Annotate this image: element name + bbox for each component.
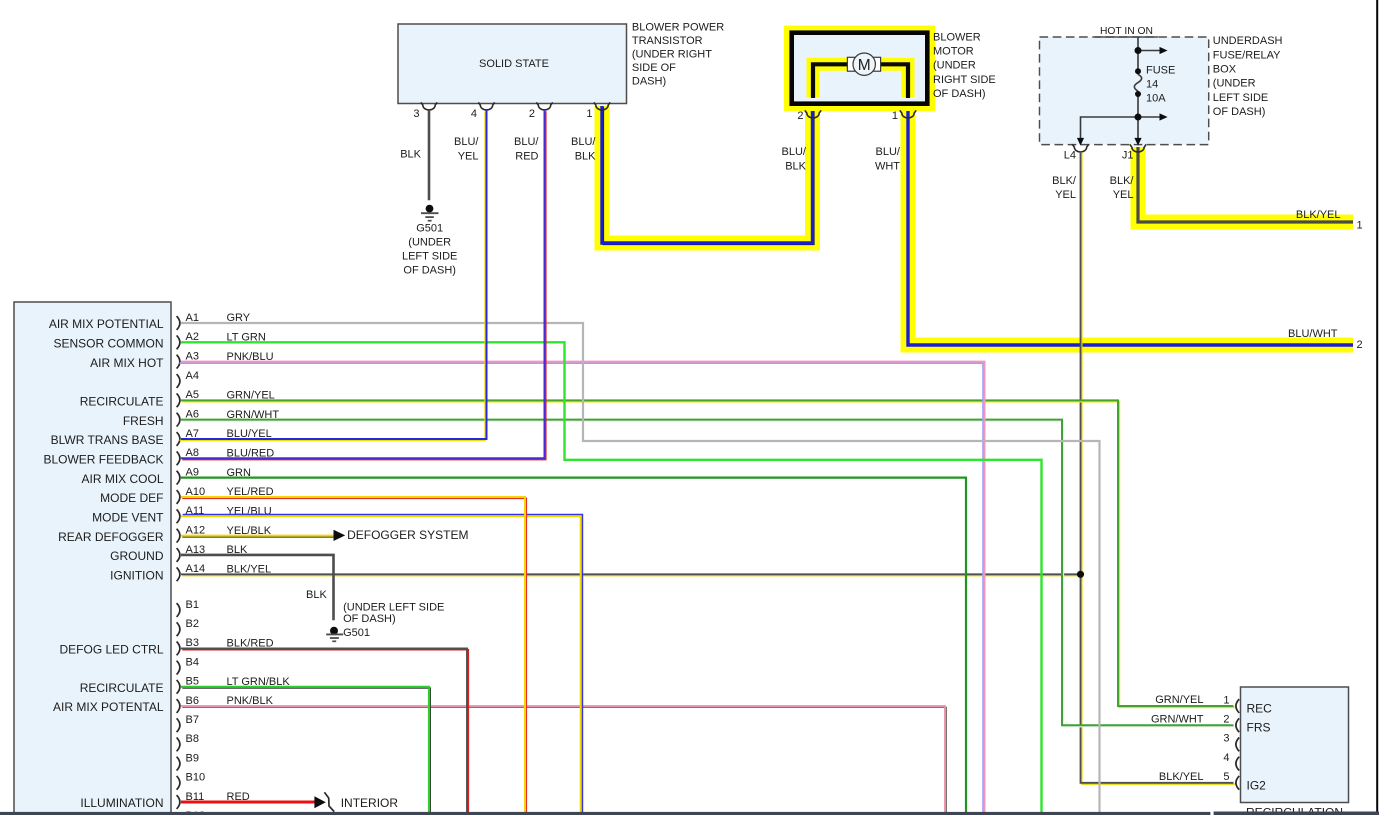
pin A4	[177, 370, 199, 388]
wire B5 LT GRN/BLK	[181, 687, 430, 815]
pin A9	[177, 466, 251, 484]
svg-text:A14: A14	[186, 563, 206, 575]
ground G501 caption (solid state)	[402, 222, 457, 276]
svg-text:GROUND: GROUND	[110, 549, 164, 563]
pin B3	[177, 637, 274, 655]
svg-text:(UNDER RIGHT: (UNDER RIGHT	[632, 49, 712, 61]
HOT IN ON underline	[1095, 36, 1158, 38]
svg-text:L4: L4	[1064, 149, 1076, 161]
wire A9 GRN	[181, 478, 966, 815]
svg-text:OF DASH): OF DASH)	[343, 613, 396, 625]
pin A6	[177, 408, 280, 426]
svg-text:YEL: YEL	[1113, 189, 1134, 201]
wire A10 YEL/RED	[181, 497, 526, 815]
svg-text:G501: G501	[343, 627, 370, 639]
arrow to DEFOGGER SYSTEM	[334, 528, 469, 542]
svg-text:BLK/: BLK/	[1110, 175, 1135, 187]
svg-text:ILLUMINATION: ILLUMINATION	[80, 796, 163, 810]
svg-text:1: 1	[1223, 694, 1229, 706]
wire A2 LT GRN	[181, 342, 1042, 815]
svg-text:AIR MIX POTENTAL: AIR MIX POTENTAL	[53, 700, 164, 714]
pin B2	[177, 618, 199, 636]
svg-text:BLK: BLK	[306, 589, 327, 601]
pin B6	[177, 695, 274, 713]
pin A10	[177, 486, 274, 504]
svg-text:BLU/: BLU/	[782, 146, 807, 158]
solid state pin 3 cup	[421, 102, 437, 110]
svg-text:5: 5	[1223, 771, 1229, 783]
svg-text:FUSE: FUSE	[1146, 65, 1175, 77]
svg-text:DEFOG LED CTRL: DEFOG LED CTRL	[59, 643, 163, 657]
svg-text:MODE VENT: MODE VENT	[92, 511, 164, 525]
svg-text:IGNITION: IGNITION	[110, 568, 163, 582]
svg-text:IG2: IG2	[1247, 778, 1267, 792]
svg-text:BLU/WHT: BLU/WHT	[1288, 328, 1338, 340]
solid state pin 2 cup	[536, 102, 552, 110]
svg-text:YEL: YEL	[1055, 189, 1076, 201]
svg-text:OF DASH): OF DASH)	[933, 88, 986, 100]
pin A12	[177, 524, 272, 542]
svg-text:B1: B1	[186, 599, 199, 611]
blower power transistor box U1 SOLID STATE	[398, 24, 627, 104]
svg-text:DEFOGGER SYSTEM: DEFOGGER SYSTEM	[347, 528, 468, 542]
solid state pin wire labels	[400, 136, 596, 162]
arrow to INTERIOR LIGHTS	[314, 792, 398, 815]
svg-text:SENSOR COMMON: SENSOR COMMON	[53, 337, 163, 351]
svg-text:M: M	[858, 57, 871, 74]
svg-text:AIR MIX COOL: AIR MIX COOL	[81, 472, 163, 486]
svg-text:2: 2	[1223, 714, 1229, 726]
recirculation control unit box	[1241, 687, 1349, 803]
solid state caption	[632, 21, 724, 87]
svg-text:BLOWER POWER: BLOWER POWER	[632, 21, 724, 33]
svg-text:2: 2	[1357, 339, 1363, 351]
pin A1	[177, 312, 251, 330]
svg-text:WHT: WHT	[875, 161, 900, 173]
svg-text:RED: RED	[515, 150, 538, 162]
fuse box arrow right lower	[1160, 113, 1168, 120]
fuse box pin J1 cup	[1130, 144, 1146, 152]
svg-text:BLOWER FEEDBACK: BLOWER FEEDBACK	[43, 453, 163, 467]
pin B8	[177, 733, 199, 751]
svg-text:BLU/: BLU/	[514, 136, 539, 148]
junction A14/L4 BLK/YEL	[1077, 571, 1084, 578]
fuse box caption	[1213, 35, 1283, 118]
blower motor inner circuit wire (highlighted)	[813, 64, 908, 98]
wire solid state pin3 BLK	[428, 110, 431, 200]
pin A8	[177, 447, 275, 465]
wire A5 GRN/YEL	[181, 400, 1235, 707]
pin A5	[177, 389, 275, 407]
svg-text:2: 2	[529, 108, 535, 120]
svg-text:AIR MIX POTENTIAL: AIR MIX POTENTIAL	[49, 317, 164, 331]
fuse box arrow down L4	[1077, 138, 1084, 146]
wire A8 BLU/RED	[181, 110, 546, 460]
recirculation pin 5	[1159, 771, 1239, 790]
svg-text:SOLID STATE: SOLID STATE	[479, 58, 549, 70]
svg-text:YEL: YEL	[458, 150, 479, 162]
svg-text:1: 1	[1357, 219, 1363, 231]
wire B6 PNK/BLK	[181, 706, 946, 815]
svg-text:MOTOR: MOTOR	[933, 46, 974, 58]
page border right	[1376, 0, 1378, 815]
blower motor pin wire labels	[782, 146, 901, 173]
svg-text:BLU/: BLU/	[571, 136, 596, 148]
svg-text:FRESH: FRESH	[123, 414, 164, 428]
ground G501 (solid state)	[421, 205, 439, 221]
svg-text:AIR MIX HOT: AIR MIX HOT	[90, 356, 164, 370]
svg-text:HOT IN ON: HOT IN ON	[1100, 26, 1153, 37]
svg-text:RIGHT SIDE: RIGHT SIDE	[933, 74, 996, 86]
svg-text:DASH): DASH)	[632, 76, 666, 88]
svg-text:3: 3	[413, 108, 419, 120]
pin A2	[177, 331, 266, 349]
pin A13	[177, 544, 248, 562]
recirculation pin 4	[1223, 752, 1239, 771]
svg-text:B8: B8	[186, 733, 199, 745]
svg-text:G501: G501	[416, 222, 443, 234]
motor M1 symbol	[847, 53, 880, 75]
svg-text:REC: REC	[1247, 702, 1273, 716]
wire A3 PNK/BLU	[180, 362, 985, 815]
svg-text:BLU/: BLU/	[876, 146, 901, 158]
svg-text:INTERIOR: INTERIOR	[341, 796, 399, 810]
underdash fuse/relay box	[1040, 37, 1209, 145]
svg-text:FRS: FRS	[1247, 721, 1271, 735]
svg-text:BLK/YEL: BLK/YEL	[1296, 209, 1341, 221]
recirculation pin 1	[1155, 694, 1239, 713]
J1 wire label BLK/YEL	[1110, 175, 1135, 201]
svg-text:4: 4	[1223, 752, 1229, 764]
svg-text:B7: B7	[186, 714, 199, 726]
HVAC control unit connector box	[14, 302, 171, 815]
fuse box pin L4 cup	[1072, 144, 1088, 152]
pin B5	[177, 676, 291, 694]
recirculation pin 2	[1151, 713, 1239, 732]
wire A7 BLU/YEL	[180, 110, 487, 440]
svg-text:B6: B6	[186, 695, 199, 707]
wire A11 YEL/BLU	[181, 515, 582, 815]
pin B1	[177, 599, 199, 617]
fuse box junction dot lower	[1135, 114, 1142, 121]
ground G501 (A13)	[326, 627, 343, 642]
pin A3	[177, 350, 274, 368]
wire highlighted BLU/BLK (solid state pin1 to blower motor pin2)	[602, 106, 814, 244]
svg-text:2: 2	[797, 110, 803, 122]
svg-text:10A: 10A	[1146, 93, 1166, 105]
svg-text:LEFT SIDE: LEFT SIDE	[1213, 92, 1268, 104]
svg-text:B10: B10	[186, 772, 206, 784]
svg-text:GRN/YEL: GRN/YEL	[1155, 694, 1203, 706]
wire B11 RED	[181, 801, 316, 804]
wire B3 BLK/RED	[181, 648, 468, 815]
svg-text:1: 1	[892, 110, 898, 122]
blower motor caption	[933, 32, 996, 100]
svg-text:B3: B3	[186, 637, 199, 649]
svg-text:B4: B4	[186, 656, 199, 668]
svg-text:BLK/YEL: BLK/YEL	[1159, 771, 1204, 783]
pin B10	[177, 772, 205, 790]
svg-text:BOX: BOX	[1213, 64, 1237, 76]
recirculation pin 3	[1223, 733, 1239, 752]
svg-text:(UNDER LEFT SIDE: (UNDER LEFT SIDE	[343, 602, 444, 614]
page border bottom left segment	[0, 812, 1210, 815]
wire A6 GRN/WHT	[181, 420, 1235, 727]
fuse box internal wire from HOT IN ON	[1081, 37, 1161, 139]
svg-text:3: 3	[1223, 733, 1229, 745]
pin A11	[177, 505, 272, 523]
svg-text:J1: J1	[1122, 149, 1134, 161]
pin B12	[177, 810, 205, 815]
svg-text:TRANSISTOR: TRANSISTOR	[632, 35, 703, 47]
svg-text:(UNDER: (UNDER	[933, 60, 976, 72]
label BLK/YEL circuit 1 right	[1296, 209, 1363, 231]
wire A14 BLK/YEL	[181, 574, 1082, 575]
label BLU/WHT circuit 2 right	[1288, 328, 1363, 351]
svg-text:SIDE OF: SIDE OF	[632, 62, 676, 74]
svg-text:UNDERDASH: UNDERDASH	[1213, 35, 1283, 47]
L4 wire label BLK/YEL	[1052, 175, 1077, 201]
svg-text:BLK: BLK	[400, 148, 421, 160]
blower motor pin 1 cup	[900, 110, 916, 118]
svg-text:MODE DEF: MODE DEF	[100, 491, 163, 505]
svg-text:RECIRCULATE: RECIRCULATE	[80, 395, 164, 409]
solid state pin 4 cup	[478, 102, 494, 110]
svg-text:BLWR TRANS BASE: BLWR TRANS BASE	[51, 433, 164, 447]
pin A14	[177, 563, 272, 581]
blower motor pin 2 cup	[805, 110, 821, 118]
pin B9	[177, 752, 199, 770]
svg-text:FUSE/RELAY: FUSE/RELAY	[1213, 49, 1281, 61]
pin A7	[177, 428, 272, 446]
blower motor box (yellow highlight)	[784, 26, 935, 112]
wire highlighted BLU/WHT (blower motor pin1 to connector pin2)	[908, 106, 1353, 345]
pin B4	[177, 656, 199, 674]
svg-text:GRN/WHT: GRN/WHT	[1151, 713, 1204, 725]
svg-text:BLK: BLK	[785, 161, 806, 173]
pin B11	[177, 791, 250, 809]
svg-text:(UNDER: (UNDER	[408, 236, 451, 248]
svg-text:4: 4	[471, 108, 477, 120]
wire A13 BLK	[181, 555, 334, 620]
page border bottom right segment	[1214, 812, 1379, 815]
wire A1 GRY	[181, 323, 1100, 815]
svg-text:OF DASH): OF DASH)	[403, 264, 456, 276]
ground G501 caption (A13)	[343, 602, 444, 639]
svg-text:14: 14	[1146, 79, 1158, 91]
fuse box junction dot upper	[1135, 47, 1142, 54]
svg-text:1: 1	[586, 108, 592, 120]
svg-text:(UNDER: (UNDER	[1213, 78, 1256, 90]
blower motor box frame	[792, 33, 928, 104]
solid state pin 1 cup	[594, 102, 610, 110]
fuse box arrow down J1	[1134, 138, 1141, 146]
svg-text:B9: B9	[186, 752, 199, 764]
svg-text:RECIRCULATE: RECIRCULATE	[80, 681, 164, 695]
svg-text:BLK/: BLK/	[1052, 175, 1077, 187]
svg-text:BLU/: BLU/	[454, 136, 479, 148]
pin B7	[177, 714, 199, 732]
svg-text:OF DASH): OF DASH)	[1213, 106, 1266, 118]
svg-text:BLOWER: BLOWER	[933, 32, 981, 44]
svg-text:REAR DEFOGGER: REAR DEFOGGER	[58, 530, 164, 544]
svg-text:A4: A4	[186, 370, 199, 382]
wire highlighted BLK/YEL (fuse box J1 to connector pin1)	[1138, 147, 1353, 222]
svg-text:LEFT SIDE: LEFT SIDE	[402, 250, 457, 262]
fuse box arrow right upper	[1160, 47, 1168, 54]
wire A12 YEL/BLK	[181, 536, 335, 537]
wire L4 BLK/YEL	[1081, 151, 1235, 784]
svg-text:B2: B2	[186, 618, 199, 630]
fuse 14 10A symbol	[1134, 65, 1175, 105]
svg-text:BLK: BLK	[575, 150, 596, 162]
